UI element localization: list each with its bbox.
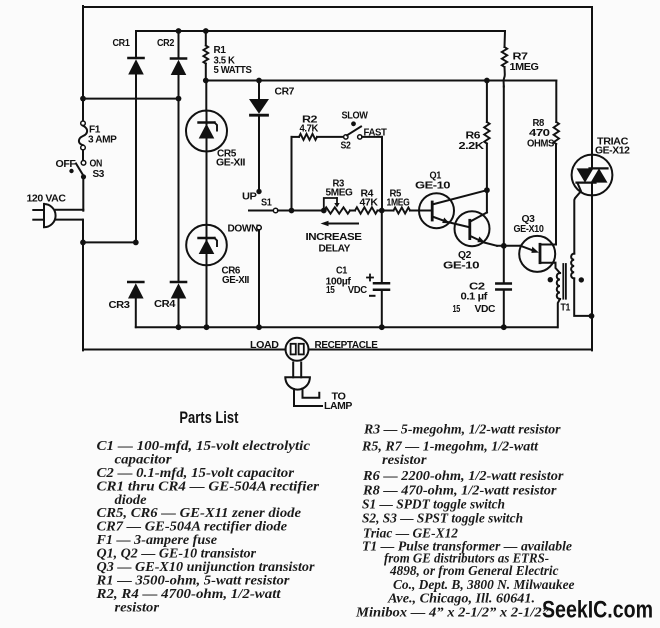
svg-text:CR4: CR4 <box>154 299 176 310</box>
triac GE-X12 <box>572 155 613 196</box>
svg-text:R6 — 2200-ohm, 1/2-watt resist: R6 — 2200-ohm, 1/2-watt resistor <box>362 468 564 483</box>
node R3 left <box>321 208 327 214</box>
resistor R6 <box>486 81 488 123</box>
wire bottom circuit rail <box>136 326 558 328</box>
wire left frame lower <box>82 220 84 351</box>
resistor R7 <box>504 31 507 47</box>
switch S1 arm <box>249 210 273 212</box>
svg-text:S1: S1 <box>261 198 272 209</box>
svg-text:INCREASE: INCREASE <box>306 232 363 243</box>
svg-text:15: 15 <box>326 285 335 296</box>
diode CR1 <box>129 57 144 60</box>
wire R4-R5 <box>378 210 394 212</box>
node CR4 bottom <box>176 324 182 330</box>
svg-text:1MEG: 1MEG <box>387 198 410 209</box>
arrow INCREASE DELAY <box>327 223 358 225</box>
svg-text:resistor: resistor <box>115 599 160 614</box>
wire R6 column to Q2 collector <box>486 190 488 212</box>
svg-text:SeekIC.com: SeekIC.com <box>542 597 653 624</box>
wire right frame lower <box>591 195 593 350</box>
wire CR2 anode stub <box>178 31 180 59</box>
svg-text:SLOW: SLOW <box>342 111 369 122</box>
svg-text:S1 — SPDT toggle switch: S1 — SPDT toggle switch <box>362 497 505 512</box>
node R1 bottom <box>203 78 209 84</box>
svg-text:3 AMP: 3 AMP <box>88 135 117 146</box>
switch S3 <box>81 161 86 166</box>
wire T1 secondary bottom <box>574 278 591 316</box>
svg-text:S2: S2 <box>341 141 352 152</box>
transistor Q1 <box>419 193 454 228</box>
node R2 left leg <box>289 208 295 214</box>
svg-text:4898, or from General Electric: 4898, or from General Electric <box>389 563 558 578</box>
svg-text:R3 — 5-megohm, 1/2-watt resist: R3 — 5-megohm, 1/2-watt resistor <box>363 422 561 437</box>
wire top frame rail <box>83 6 592 8</box>
wire S3 to plug <box>82 177 84 211</box>
resistor R5 <box>394 208 411 214</box>
switch S1 pivot <box>273 208 278 213</box>
wire S2 to right leg <box>362 136 382 138</box>
node CR6 bottom <box>204 324 210 330</box>
svg-text:R1: R1 <box>214 45 227 56</box>
transistor Q2 <box>455 211 490 246</box>
resistor R1 <box>205 31 207 46</box>
svg-text:Q2: Q2 <box>458 250 472 261</box>
svg-text:OFF: OFF <box>56 159 76 170</box>
node CR7 top <box>256 78 262 84</box>
transformer T1 primary winding <box>557 273 560 299</box>
wire bottom frame left <box>83 349 286 351</box>
diode CR4 <box>171 281 186 284</box>
diode CR3 <box>128 281 143 284</box>
zener CR6 <box>186 225 227 266</box>
svg-text:S2, S3 — SPST toggle switch: S2, S3 — SPST toggle switch <box>362 511 523 526</box>
wire top inner rail <box>136 30 505 32</box>
svg-text:CR1: CR1 <box>113 38 131 49</box>
node R6 top <box>484 78 490 84</box>
wire R2 left leg <box>291 137 293 211</box>
wire Q2 emitter to node <box>484 242 497 245</box>
wire R7 column down <box>503 87 505 246</box>
svg-text:LOAD: LOAD <box>250 340 279 351</box>
svg-text:5MEG: 5MEG <box>326 188 353 199</box>
svg-text:2.2K: 2.2K <box>459 141 485 152</box>
zener CR5 <box>186 111 227 152</box>
wire CR1 down column <box>135 75 137 242</box>
node bridge rail right <box>176 96 182 102</box>
wire mid rail <box>206 80 557 82</box>
wire node to Q3 emitter <box>497 245 521 247</box>
wire to CR3 column <box>83 241 136 243</box>
svg-text:VDC: VDC <box>348 285 368 296</box>
svg-text:GE-10: GE-10 <box>443 261 480 272</box>
svg-text:resistor: resistor <box>382 452 427 467</box>
svg-text:LAMP: LAMP <box>324 401 353 412</box>
svg-text:GE-10: GE-10 <box>415 181 451 192</box>
svg-text:15: 15 <box>453 304 461 315</box>
wire R2 to S2 <box>317 136 344 138</box>
wire left frame upper <box>82 6 84 121</box>
diode CR2 <box>171 57 186 60</box>
node Q1 Q2 collector junction <box>484 187 490 193</box>
svg-text:0.1 µf: 0.1 µf <box>461 292 489 303</box>
svg-text:CR7: CR7 <box>275 87 295 98</box>
svg-text:470: 470 <box>529 128 550 139</box>
potentiometer R3 <box>324 207 350 213</box>
T1 phasing dot left <box>548 277 553 282</box>
svg-text:R8 — 470-ohm, 1/2-watt resisto: R8 — 470-ohm, 1/2-watt resistor <box>362 483 557 498</box>
wire CR7 stub <box>258 81 260 100</box>
wire bridge upper rail <box>83 98 179 100</box>
wire Q3 B1 to T1 <box>556 263 561 273</box>
svg-text:S3: S3 <box>93 169 105 180</box>
wire CR4 to rail <box>178 298 180 327</box>
transformer T1 secondary winding <box>571 254 574 279</box>
fuse F1 <box>81 121 86 126</box>
svg-text:1MEG: 1MEG <box>510 62 539 73</box>
capacitor C2 <box>503 246 505 284</box>
node CR2 top <box>176 28 182 34</box>
node C1 top <box>379 208 385 214</box>
svg-text:R6: R6 <box>466 131 481 142</box>
capacitor C1 <box>381 211 383 284</box>
svg-text:UP: UP <box>242 192 257 203</box>
wire CR1 anode stub <box>135 31 137 58</box>
wire TRIAC gate <box>574 183 581 254</box>
node DOWN bottom <box>256 324 262 330</box>
svg-text:4.7K: 4.7K <box>300 124 319 135</box>
svg-text:GE-XII: GE-XII <box>222 275 250 286</box>
load receptacle <box>286 338 309 361</box>
wire T1 primary to rail <box>558 299 560 327</box>
node UP contact <box>256 189 261 194</box>
svg-text:C1: C1 <box>336 266 348 277</box>
wire F1 to S3 <box>82 150 84 161</box>
resistor R2 <box>292 136 300 138</box>
switch S2 <box>344 135 348 139</box>
svg-text:OHMS: OHMS <box>527 139 554 150</box>
transformer T1 core <box>562 264 564 299</box>
diode CR7 <box>249 99 269 114</box>
svg-text:Minibox — 4” x 2-1/2” x 2-1/2”: Minibox — 4” x 2-1/2” x 2-1/2” <box>355 605 549 620</box>
node R1 top <box>203 28 209 34</box>
node TRIAC T1 junction <box>589 313 595 319</box>
T1 phasing dot right <box>579 277 584 282</box>
svg-text:T1: T1 <box>561 303 571 314</box>
svg-text:ON: ON <box>90 159 103 170</box>
wire Q1 emitter to Q2 base <box>447 222 469 227</box>
wire CR7 to UP contact <box>258 116 260 192</box>
node bridge rail left <box>80 96 86 102</box>
wire R8 to Q3 B2 <box>555 144 557 245</box>
resistor R4 <box>355 207 378 213</box>
node CR3 top junction <box>133 240 139 246</box>
wire DOWN to bottom rail <box>258 230 260 327</box>
node emitter C2 junction <box>501 243 507 249</box>
transistor Q3 <box>519 236 555 272</box>
wire R3-R4 <box>350 210 355 212</box>
contact DOWN <box>257 225 262 230</box>
wire bottom frame right <box>309 349 593 351</box>
svg-text:CR3: CR3 <box>109 300 131 311</box>
svg-text:Parts List: Parts List <box>179 409 238 427</box>
resistor R8 <box>555 81 557 123</box>
svg-text:120 VAC: 120 VAC <box>27 194 67 205</box>
svg-text:CR2: CR2 <box>157 38 175 49</box>
wire R5 to Q1 base <box>410 210 419 212</box>
svg-text:R7: R7 <box>513 52 529 63</box>
svg-text:GE-X10: GE-X10 <box>514 224 545 235</box>
lamp plug <box>292 363 294 378</box>
wire R1 to CR5 <box>205 81 207 112</box>
node AC lower junction <box>80 240 86 246</box>
svg-text:VDC: VDC <box>475 304 496 315</box>
wire S1 to R3 <box>278 210 324 212</box>
svg-text:GE-XII: GE-XII <box>216 158 246 169</box>
wire CR2 down column <box>178 76 180 283</box>
svg-text:GE-X12: GE-X12 <box>595 146 630 157</box>
node C1 bottom <box>379 324 385 330</box>
wire right frame upper <box>591 7 593 155</box>
wire CR5 to CR6 <box>206 151 208 225</box>
svg-text:DELAY: DELAY <box>319 244 351 255</box>
node C2 bottom <box>501 324 507 330</box>
svg-text:47K: 47K <box>360 198 379 209</box>
svg-text:DOWN: DOWN <box>228 224 259 235</box>
svg-text:5 WATTS: 5 WATTS <box>214 65 252 76</box>
wire S2 right leg <box>381 137 383 211</box>
wire CR3 to rail <box>135 298 137 327</box>
wire CR6 to bottom rail <box>206 265 208 327</box>
svg-text:Ave., Chicago, Ill. 60641.: Ave., Chicago, Ill. 60641. <box>387 591 535 606</box>
